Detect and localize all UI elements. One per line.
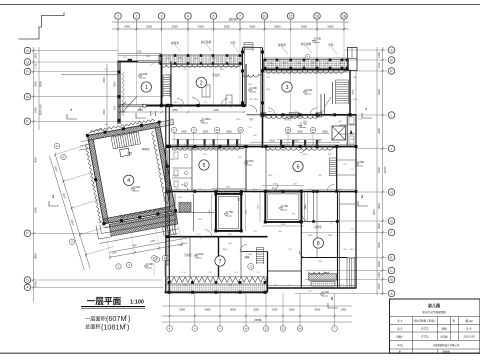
svg-text:2010.05: 2010.05: [463, 335, 474, 339]
interior bubble 11: [248, 264, 254, 270]
svg-text:4300: 4300: [377, 128, 381, 134]
courtyard1 flank dims: [211, 194, 213, 231]
svg-text:3300: 3300: [34, 81, 38, 87]
svg-text:-0.300: -0.300: [321, 290, 329, 294]
svg-text:黄 永: 黄 永: [466, 327, 472, 331]
room label circle 2: [196, 77, 206, 87]
small tick rows top left terrace: [161, 55, 163, 64]
bottom terrace triangles: [166, 277, 267, 283]
svg-text:1050: 1050: [289, 308, 295, 312]
svg-text:3300: 3300: [115, 105, 117, 111]
stair room3: [336, 79, 349, 81]
wall mid horizontal y105.5: [142, 105, 246, 107]
small bubble pair bottom-left: [152, 256, 157, 261]
svg-text:3670: 3670: [372, 209, 376, 215]
wall right block bottom y288: [268, 287, 357, 289]
svg-text:2850: 2850: [212, 58, 218, 60]
filled triangle mark: [350, 130, 353, 134]
hatched piers on yL wall: [261, 113, 267, 117]
svg-text:1700: 1700: [34, 63, 38, 69]
room label circle 1: [141, 82, 151, 92]
columns on y105 wall: [169, 104, 172, 107]
bottom axis bubbles: [167, 326, 173, 332]
svg-text:3000: 3000: [269, 139, 275, 142]
svg-text:3020: 3020: [103, 109, 106, 115]
svg-text:种植池: 种植池: [171, 41, 179, 45]
apex line bottom terrace: [166, 276, 267, 278]
annex top double line: [61, 74, 118, 76]
corridor door frames right: [280, 140, 282, 147]
courtyard2 level text: [279, 208, 283, 210]
bottom terrace hatch band: [166, 284, 267, 292]
svg-text:4800: 4800: [115, 81, 117, 87]
svg-text:2250: 2250: [303, 154, 309, 156]
door swing room1: [118, 103, 127, 112]
interior bubble leaders: [173, 133, 175, 147]
svg-text:3600: 3600: [377, 203, 381, 209]
columns on y146.5 wall: [168, 145, 171, 148]
left wall hatch strip room7: [166, 240, 169, 265]
svg-text:设 计: 设 计: [397, 327, 403, 331]
window double line left edge: [167, 150, 169, 234]
svg-text:-0.150: -0.150: [249, 86, 257, 90]
tilted axis bubbles upper: [54, 143, 59, 148]
courtyard2 dim line above: [262, 185, 304, 187]
svg-text:+0.000: +0.000: [195, 252, 204, 256]
svg-text:4800: 4800: [34, 253, 38, 259]
svg-text:2400: 2400: [181, 131, 187, 134]
left axis bubbles S-A: [24, 47, 31, 54]
svg-text:2850: 2850: [283, 63, 289, 65]
entrance steps top-centre: [244, 42, 253, 44]
inner face line right block: [268, 285, 357, 287]
window tick marks on walls: [179, 104, 181, 107]
stair room6: [330, 157, 337, 159]
canopy scallop edge below top-left terrace: [161, 65, 242, 68]
svg-text:+0.000: +0.000: [132, 185, 141, 189]
svg-text:3620 140: 3620 140: [39, 104, 43, 115]
wall x339.3 double: [338, 192, 340, 288]
courtyard2 dim line below: [262, 225, 304, 227]
room2 right wall x246: [245, 64, 247, 106]
columns room1 left wall: [117, 70, 120, 73]
level mark room7: [194, 256, 198, 258]
svg-text:): ): [127, 323, 129, 332]
level mark porch: [320, 294, 324, 296]
porch scallop edge: [309, 272, 329, 275]
svg-text:3300: 3300: [198, 25, 204, 29]
svg-text:D: D: [63, 156, 65, 159]
wall room3 right x350: [349, 70, 351, 115]
svg-text:18: 18: [342, 14, 346, 18]
svg-text:制图: 制图: [442, 327, 447, 331]
svg-text:F: F: [26, 232, 28, 236]
bottom dimension lines: [162, 305, 352, 307]
svg-text:活动室: 活动室: [212, 73, 220, 77]
room label circle 3: [282, 82, 292, 92]
svg-text:1700: 1700: [377, 62, 381, 68]
plan title underline: [81, 306, 145, 308]
svg-text:林志文: 林志文: [421, 326, 429, 330]
svg-text:2250: 2250: [253, 308, 259, 312]
level mark corridor right: [298, 125, 302, 127]
right axis bubbles S-A: [388, 47, 395, 54]
terrace hatch band top-left: [159, 55, 242, 64]
right mid wall x347.5: [347, 115, 349, 147]
tiny leader strokes: [150, 63, 154, 66]
svg-text:5400: 5400: [377, 89, 381, 95]
porch hatch lower: [311, 282, 335, 287]
dim line under mid wall: [120, 111, 244, 113]
svg-text:1400: 1400: [34, 281, 38, 287]
top axis leader lines: [117, 20, 119, 63]
wall y236.7 partial: [166, 236, 268, 238]
svg-text:吧台: 吧台: [128, 151, 133, 155]
room label circle 6: [293, 161, 303, 171]
svg-text:2250: 2250: [272, 308, 278, 312]
top-right service block: [348, 48, 358, 71]
svg-text:+0.000: +0.000: [139, 72, 148, 76]
right dimension lines: [376, 47, 378, 295]
svg-text:5300: 5300: [328, 25, 334, 29]
room label circle 7: [215, 256, 225, 266]
wall stair shaft left x161.5: [161, 55, 163, 106]
title block table: [390, 299, 480, 353]
svg-text:幼儿园: 幼儿园: [428, 302, 440, 308]
tilted dimension lines left of wing: [49, 145, 118, 270]
mini bubble above band2: [305, 54, 309, 58]
courtyard2 flank dims: [259, 192, 261, 222]
svg-text:1800: 1800: [377, 261, 381, 267]
svg-text:台阶: 台阶: [328, 43, 334, 47]
inner face line y191.5: [166, 189, 356, 191]
courtyard1 level text: [224, 214, 228, 216]
svg-text:审 核: 审 核: [397, 343, 403, 347]
room8 partition x313.5: [313, 192, 315, 222]
tilted axis bubbles lower: [69, 239, 74, 244]
stair room7: [256, 247, 264, 249]
svg-text:1300: 1300: [377, 272, 381, 278]
porch side steps: [346, 258, 348, 288]
wall room3 top: [262, 69, 350, 71]
courtyard2 outer wall: [265, 191, 301, 222]
svg-text:Q: Q: [26, 60, 29, 64]
entrance level mark: [248, 90, 252, 92]
courtyard2 inner line: [268, 194, 299, 220]
toilet partitions: [174, 194, 176, 231]
entrance columns: [241, 51, 244, 54]
svg-text:3000: 3000: [322, 131, 328, 134]
courtyard2 corner columns: [264, 190, 267, 193]
svg-text:3900: 3900: [308, 235, 314, 237]
svg-text:+0.000: +0.000: [245, 159, 254, 163]
svg-text:-0.750: -0.750: [280, 204, 288, 208]
inner face line y146.5: [166, 144, 356, 146]
svg-text:活动室: 活动室: [184, 253, 192, 257]
room5 left subroom walls: [191, 147, 193, 192]
svg-text:2850: 2850: [178, 58, 184, 60]
door swing arcs: [177, 99, 184, 106]
door swing room2: [192, 98, 200, 106]
svg-text:L: L: [391, 113, 393, 117]
interior dim line room1 left: [106, 64, 108, 131]
wall stair shaft right x171: [170, 62, 172, 106]
svg-text:业 主: 业 主: [397, 319, 403, 323]
level mark corridor: [200, 121, 204, 123]
svg-text:3620: 3620: [39, 81, 43, 87]
wall room1 left double: [117, 62, 119, 125]
svg-text:1400: 1400: [377, 52, 381, 58]
svg-text:4: 4: [139, 107, 141, 111]
level mark room3: [303, 92, 307, 94]
svg-text:台阶: 台阶: [230, 41, 236, 45]
terrace hatch band top-right: [264, 60, 349, 69]
curtain scallop below room3 top wall: [266, 71, 347, 74]
interior bubble left: [168, 210, 173, 215]
room3 right dim line: [355, 71, 357, 115]
svg-text:音体室: 音体室: [314, 225, 322, 229]
stair treads between rooms 1 and 2: [163, 74, 170, 76]
svg-text:卵石铺地: 卵石铺地: [301, 42, 312, 46]
wall y271 partial: [268, 270, 302, 272]
corridor dim line right: [250, 142, 340, 144]
door swing room1 diagonal: [123, 96, 138, 112]
stepped section symbol top-left: [19, 13, 65, 40]
svg-text:10: 10: [263, 14, 267, 18]
courtyard1 inner line: [218, 196, 238, 228]
svg-text:2850: 2850: [311, 63, 317, 65]
columns on top-left terrace: [160, 54, 163, 57]
corridor interior dim line: [174, 133, 241, 135]
svg-text:3300: 3300: [315, 139, 321, 142]
svg-text:5: 5: [203, 163, 206, 169]
canopy scallop row below y146.5 right part: [265, 148, 335, 151]
svg-text:4: 4: [127, 178, 130, 184]
svg-text:2000: 2000: [297, 131, 303, 134]
svg-text:3: 3: [286, 85, 289, 91]
wall room1 top: [118, 61, 139, 63]
courtyard1 outer wall: [216, 194, 241, 231]
wall corridor bottom y146.5: [166, 146, 357, 148]
room4 label circle: [124, 175, 134, 185]
courtyard1 dim line above: [212, 188, 245, 190]
svg-text:2: 2: [124, 323, 126, 327]
svg-text:3000: 3000: [377, 242, 381, 248]
svg-text:32100: 32100: [383, 166, 387, 174]
svg-text:2730: 2730: [273, 184, 279, 186]
porch hatch upper: [309, 274, 337, 280]
toilet block hatch: [179, 203, 191, 213]
grid marker circle on y105 wall: [143, 104, 147, 108]
corridor door frames: [177, 139, 179, 146]
yL wall left stub: [247, 114, 263, 116]
svg-text:12: 12: [289, 14, 293, 18]
window lines room2 top: [171, 64, 240, 66]
wall room6 right vertical x336.7: [336, 147, 338, 193]
svg-text:市规划建筑设计有限公司: 市规划建筑设计有限公司: [433, 343, 460, 347]
level mark right -0.300: [355, 164, 359, 166]
partition x266 room6: [265, 147, 267, 192]
small tick rows top right terrace: [263, 60, 265, 69]
room8 interior lines: [301, 221, 339, 223]
svg-text:5300: 5300: [377, 167, 381, 173]
svg-text:2: 2: [136, 14, 138, 18]
svg-text:一层平面: 一层平面: [87, 296, 122, 306]
svg-text:1: 1: [145, 85, 148, 91]
svg-text:2400: 2400: [124, 25, 130, 29]
svg-text:碧水湾-总平面规划图: 碧水湾-总平面规划图: [422, 310, 446, 314]
wall right edge x356 upper: [355, 115, 357, 192]
svg-text:1500: 1500: [136, 52, 142, 54]
svg-text:8: 8: [317, 241, 320, 247]
entrance pier room1 top: [128, 59, 132, 62]
partition small room1 bottom: [150, 111, 152, 116]
level mark room5: [244, 163, 248, 165]
insulation sawtooth inside room1 wall: [122, 72, 124, 116]
svg-text:3020: 3020: [103, 77, 106, 83]
svg-text:-0.750: -0.750: [225, 210, 233, 214]
svg-text:26200: 26200: [229, 18, 238, 22]
svg-text:2730: 2730: [281, 224, 287, 226]
wall x356 lower right: [355, 192, 357, 289]
svg-text:1400: 1400: [377, 283, 381, 289]
entrance canopy scallop: [243, 74, 262, 77]
svg-text:2400: 2400: [314, 308, 320, 312]
svg-text:5000: 5000: [179, 308, 185, 312]
columns on y191.5 wall: [168, 190, 171, 193]
svg-text:7: 7: [219, 259, 222, 265]
svg-text:F: F: [390, 231, 392, 235]
courtyard1 corner columns: [214, 192, 217, 195]
room8 dim vert: [306, 192, 308, 222]
svg-text:5500: 5500: [275, 25, 281, 29]
wall y257.5 partial right: [301, 257, 347, 259]
svg-text:许文年: 许文年: [421, 334, 429, 338]
wall room3 bottom yL: [263, 114, 357, 116]
level mark top -0.300: [312, 40, 316, 42]
room label circle 8: [313, 238, 323, 248]
svg-text:-0.300: -0.300: [356, 160, 364, 164]
svg-text:2850: 2850: [328, 235, 334, 237]
svg-text:2530: 2530: [226, 187, 232, 189]
room3 door frame: [320, 94, 322, 115]
window mullions room3: [290, 70, 292, 74]
x-braced box corridor right: [332, 126, 345, 140]
svg-text:3: 3: [161, 14, 163, 18]
svg-text:1: 1: [117, 14, 119, 18]
room2 door frames: [202, 85, 210, 97]
svg-text:一层面积: 一层面积: [85, 316, 106, 323]
wall x337.5 vertical: [337, 192, 339, 288]
sheet frame bottom border: [0, 352, 480, 354]
svg-text:3000: 3000: [293, 139, 299, 142]
hatch connector wing to building: [159, 120, 174, 127]
inner face line top wall room3: [263, 71, 350, 73]
tilted dimension line below wing: [105, 222, 188, 258]
svg-text:3300: 3300: [146, 25, 152, 29]
entrance corridor walls: [242, 48, 244, 106]
canopy scallop row below y146.5 left part: [172, 148, 244, 151]
wall y251.5 partial: [241, 251, 267, 253]
svg-text:2: 2: [200, 80, 203, 86]
svg-text:4: 4: [70, 108, 72, 112]
svg-text:5000: 5000: [249, 25, 255, 29]
svg-text:3000: 3000: [203, 131, 209, 134]
svg-text:1:100: 1:100: [130, 300, 144, 306]
partition x246 rooms 5-6: [245, 147, 247, 192]
wall left edge mid double: [165, 106, 167, 237]
interior axis bubbles row: [171, 127, 176, 132]
room label circle 5: [199, 160, 209, 170]
svg-text:5: 5: [213, 14, 215, 18]
wall x267.5 vertical: [267, 252, 269, 293]
room4 level mark: [131, 189, 135, 191]
svg-text:3000: 3000: [226, 131, 232, 134]
room6 door arcs: [271, 185, 278, 192]
svg-text:施-02: 施-02: [465, 318, 473, 323]
svg-text:5300: 5300: [172, 25, 178, 29]
svg-text:3570: 3570: [353, 89, 355, 95]
svg-text:J: J: [391, 147, 393, 151]
wall bottom y291.8: [165, 291, 268, 293]
right strip cells: [339, 124, 356, 126]
level mark below wing: [144, 266, 148, 268]
svg-text:5400: 5400: [34, 207, 38, 213]
svg-text:3300: 3300: [301, 25, 307, 29]
partition x217.8 room5: [217, 147, 219, 192]
window double line room5 top: [172, 148, 244, 150]
entrance door arc: [250, 106, 257, 113]
svg-text:3600: 3600: [377, 223, 381, 229]
svg-text:2100: 2100: [213, 109, 219, 112]
level mark room1: [138, 76, 142, 78]
svg-text:1050: 1050: [340, 308, 346, 312]
wall x301.3 vertical: [300, 222, 302, 288]
svg-text:建施图: 建施图: [442, 349, 450, 353]
svg-text:盥洗: 盥洗: [237, 197, 243, 201]
svg-text:4: 4: [365, 107, 367, 111]
svg-text:卵石铺地: 卵石铺地: [201, 40, 212, 44]
svg-text:(1081M: (1081M: [101, 323, 125, 332]
svg-text:6: 6: [297, 164, 300, 170]
svg-text:3040: 3040: [223, 249, 229, 251]
svg-text:5000: 5000: [230, 308, 236, 312]
svg-text:碧水湾配套工程设计: 碧水湾配套工程设计: [414, 319, 436, 323]
svg-text:16: 16: [315, 14, 319, 18]
svg-text:-0.300: -0.300: [145, 262, 153, 266]
svg-text:睡眠区: 睡眠区: [142, 147, 150, 151]
svg-text:25080: 25080: [254, 318, 262, 322]
svg-text:2850: 2850: [172, 109, 178, 112]
svg-text:3000: 3000: [34, 157, 38, 163]
svg-text:休息室: 休息室: [284, 117, 292, 121]
room7 partitions: [189, 237, 191, 277]
top axis bubbles 1-18: [115, 13, 122, 20]
svg-text:+0.000: +0.000: [304, 88, 313, 92]
top dimension lines: [112, 21, 349, 23]
columns bottom wall: [168, 291, 171, 294]
thin canopy line above room1: [118, 53, 162, 55]
svg-text:-0.300: -0.300: [313, 37, 321, 41]
svg-text:4: 4: [187, 14, 189, 18]
wall x166 lower-left vertical: [165, 237, 167, 292]
svg-text:2: 2: [125, 315, 127, 319]
svg-text:G: G: [390, 219, 393, 223]
bottom-right wall ticks: [271, 287, 273, 289]
room8 upper partition: [316, 192, 318, 223]
svg-text:5300: 5300: [34, 107, 38, 113]
svg-text:5000: 5000: [205, 308, 211, 312]
